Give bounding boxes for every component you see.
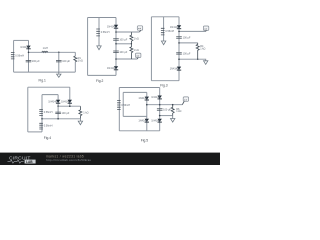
inductor L6 0.56mH (Fig.4 lower) — [39, 123, 43, 129]
svg-text:1N4148: 1N4148 — [151, 119, 160, 122]
diode D5 1N4148 (Fig.3 bottom) — [177, 67, 181, 70]
diode D1 1N4148 (Fig.1 top) — [28, 40, 30, 72]
svg-text:100 µF: 100 µF — [163, 109, 171, 112]
svg-text:100 µF: 100 µF — [62, 112, 70, 115]
wire: Fig.5 top wire — [119, 87, 159, 89]
wire: Fig.4 inner top wire — [42, 94, 58, 96]
ground (Fig.2 under inductor) — [97, 46, 101, 50]
diode D9 1N4148 (Fig.5 bottom-left) — [145, 119, 149, 122]
svg-text:1 kΩ: 1 kΩ — [134, 49, 139, 52]
output flag out3 (Fig.3) — [203, 26, 208, 30]
diode D2 1N4148 (Fig.2 top) — [114, 25, 118, 28]
wire: Fig.4 inner vertical — [41, 95, 43, 132]
diode D7 1N4148 (Fig.4 right) — [69, 87, 71, 106]
svg-text:out: out — [184, 98, 187, 101]
svg-text:Fig.2: Fig.2 — [96, 79, 103, 83]
svg-text:0.56mH: 0.56mH — [165, 30, 174, 33]
wire: Fig.2 bottom wire — [88, 74, 116, 76]
node: Fig.1 junction at diode branch — [28, 52, 30, 54]
svg-text:http://circuitlab.com/c6v53kra: http://circuitlab.com/c6v53krau — [46, 158, 91, 162]
capacitor C7 100uF (Fig.4) — [57, 106, 59, 119]
wire: Fig.3 main rail — [178, 17, 180, 81]
resistor R4 1k (Fig.3) — [196, 43, 199, 59]
svg-text:LAB: LAB — [26, 160, 33, 164]
svg-text:out: out — [204, 27, 207, 30]
capacitor C5 100uF (Fig.3 upper) — [176, 37, 182, 38]
svg-text:out: out — [138, 27, 141, 30]
resistor R1 1k (Fig.1 right) — [74, 52, 76, 56]
capacitor C1 100uF (Fig.1, on diode branch) — [26, 61, 32, 62]
svg-text:1N4148: 1N4148 — [107, 67, 116, 70]
svg-text:1 kΩ: 1 kΩ — [200, 47, 205, 50]
wire: Fig.4 outer left wire — [27, 87, 29, 132]
wire: Fig.3 node B — [179, 42, 198, 44]
capacitor C8 100uF (Fig.5) — [157, 109, 163, 110]
logo LAB box — [25, 160, 36, 164]
inductor L5 0.56mH (Fig.4 upper) — [39, 110, 43, 116]
wire: Fig.2 main rail — [115, 18, 117, 76]
capacitor C6 100uF (Fig.3 lower) — [176, 53, 182, 54]
capacitor C2 100uF (Fig.1 middle branch) — [58, 52, 60, 72]
wire: Fig.5 inner vertical — [122, 92, 124, 116]
wire: Fig.4 lower node wire — [42, 118, 80, 120]
svg-text:1N4148: 1N4148 — [151, 96, 160, 99]
wire: Fig.3 node A — [179, 30, 205, 32]
wire: Fig.1 top wire — [14, 39, 29, 41]
svg-text:Fig.1: Fig.1 — [39, 79, 46, 83]
wire: Fig.2 node C — [116, 58, 137, 60]
ground (Fig.4) — [78, 119, 82, 125]
svg-text:1N4148: 1N4148 — [138, 119, 147, 122]
resistor R6 1k (Fig.5) — [171, 105, 174, 116]
wire: Fig.5 rail 1 — [146, 92, 148, 130]
svg-text:1 kΩ: 1 kΩ — [83, 112, 88, 115]
diode D8 1N4148 (Fig.5 top-left) — [145, 97, 149, 100]
svg-text:out: out — [136, 55, 139, 58]
svg-text:0.56mH: 0.56mH — [121, 104, 130, 107]
wire: Fig.2 top wire — [88, 17, 116, 19]
svg-text:1N4148: 1N4148 — [61, 100, 70, 103]
resistor R3 1k (Fig.2 lower) — [130, 44, 133, 59]
diode D4 1N4148 (Fig.3 top) — [177, 25, 181, 28]
ground (Fig.3 right) — [204, 61, 208, 65]
wire: Fig.5 left wire — [118, 88, 120, 131]
output flag out4 (Fig.5) — [183, 97, 188, 101]
svg-text:100 µF: 100 µF — [62, 60, 70, 63]
svg-text:100 µF: 100 µF — [183, 53, 191, 56]
svg-text:1N4148: 1N4148 — [107, 25, 116, 28]
logo waveform — [8, 160, 24, 163]
wire: Fig.2 node B — [116, 43, 131, 45]
svg-text:100 µF: 100 µF — [32, 60, 40, 63]
wire: Fig.5 rail 2 — [159, 88, 161, 131]
svg-text:Fig.3: Fig.3 — [160, 83, 167, 87]
wire: Fig.1 middle horizontal — [29, 51, 76, 53]
svg-text:1 kΩ: 1 kΩ — [176, 110, 181, 113]
svg-text:100 µF: 100 µF — [183, 37, 191, 40]
svg-text:0.56mH: 0.56mH — [44, 111, 53, 114]
diode D6 1N4148 (Fig.4 left) — [57, 95, 59, 107]
wire: Fig.2 left wire — [87, 18, 89, 76]
svg-text:Fig.4: Fig.4 — [44, 136, 51, 140]
svg-text:1mH: 1mH — [43, 47, 48, 50]
wire: Fig.5 wire C — [160, 115, 173, 117]
wire: Fig.4 bottom wire — [28, 131, 42, 133]
wire: Fig.5 wire A — [123, 91, 147, 93]
node: Fig.1 junction mid — [58, 52, 60, 54]
svg-text:100 µF: 100 µF — [119, 39, 127, 42]
wire: Fig.3 node C — [179, 59, 206, 61]
inductor L3 0.56mH (Fig.2 antenna branch) — [98, 18, 100, 46]
diode D10 1N4148 (Fig.5 top-right) — [158, 96, 162, 99]
wire: Fig.5 wire B — [123, 115, 147, 117]
svg-text:1N4148: 1N4148 — [138, 97, 147, 100]
svg-text:1 kΩ: 1 kΩ — [134, 37, 139, 40]
resistor R5 1k (Fig.4) — [79, 106, 82, 119]
resistor R2 1k (Fig.2 upper) — [130, 32, 133, 44]
svg-text:0.56mH: 0.56mH — [44, 125, 53, 128]
wire: Fig.5 bottom wire — [119, 130, 159, 132]
inductor L4 0.56mH (Fig.3 antenna branch) — [163, 17, 165, 41]
svg-text:Fig.5: Fig.5 — [141, 138, 148, 142]
svg-text:0.56mH: 0.56mH — [101, 31, 110, 34]
svg-text:0.56mH: 0.56mH — [15, 54, 24, 57]
capacitor C4 100uF (Fig.2 lower) — [113, 51, 119, 52]
ground (Fig.1) — [57, 72, 61, 77]
svg-text:1N4148: 1N4148 — [48, 100, 57, 103]
svg-text:1N4148: 1N4148 — [170, 26, 179, 29]
diode D11 1N4148 (Fig.5 bottom-right) — [158, 119, 162, 122]
wire: Fig.3 bottom wire — [151, 80, 179, 82]
wire: Fig.4 diode output node — [58, 105, 80, 107]
wire: Fig.1 left wire — [13, 40, 15, 72]
inductor L2 1mH (Fig.1 horizontal) — [42, 51, 48, 52]
ground (Fig.5) — [171, 116, 175, 123]
wire: Fig.4 outer top wire — [28, 86, 70, 88]
output flag out2 (Fig.2) — [136, 53, 141, 57]
wire: Fig.3 top wire — [151, 16, 179, 18]
diode D3 1N4148 (Fig.2 bottom) — [114, 66, 118, 69]
wire: Fig.3 left wire — [150, 17, 152, 81]
output flag out1 (Fig.2) — [137, 26, 142, 30]
svg-text:1N4148: 1N4148 — [20, 46, 29, 49]
capacitor C3 100uF (Fig.2) — [113, 39, 119, 40]
wire: Fig.5 node P — [147, 104, 183, 106]
inductor L7 0.56mH (Fig.5) — [117, 101, 121, 110]
ground (Fig.3 under inductor) — [161, 41, 165, 45]
wire: Fig.1 bottom wire — [14, 71, 76, 73]
svg-text:1N4148: 1N4148 — [170, 67, 179, 70]
wire: Fig.2 node A — [116, 31, 139, 33]
svg-text:100 µF: 100 µF — [119, 51, 127, 54]
inductor L1 0.56mH (Fig.1 left) — [11, 53, 15, 59]
svg-text:1 kΩ: 1 kΩ — [78, 59, 83, 62]
